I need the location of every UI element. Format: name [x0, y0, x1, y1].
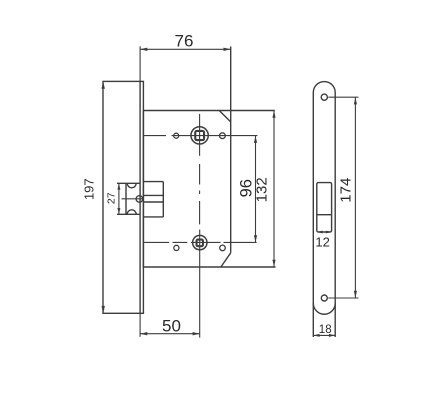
svg-text:18: 18	[319, 324, 332, 336]
svg-text:132: 132	[254, 177, 271, 202]
svg-text:197: 197	[82, 178, 97, 200]
svg-text:27: 27	[105, 192, 117, 204]
svg-text:76: 76	[175, 32, 194, 51]
svg-text:174: 174	[338, 178, 355, 203]
svg-text:50: 50	[162, 317, 181, 336]
svg-text:12: 12	[315, 235, 329, 250]
